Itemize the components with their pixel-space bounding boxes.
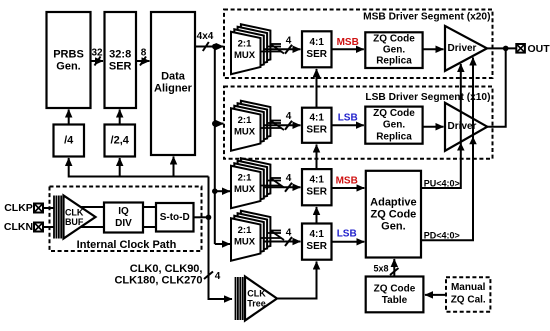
svg-text:LSB: LSB	[338, 113, 358, 124]
svg-text:MUX: MUX	[234, 237, 256, 248]
block 4:1 SER row2	[302, 108, 332, 143]
wire PD code	[421, 58, 473, 241]
wire data to LSB mux	[215, 123, 224, 125]
svg-text:/4: /4	[64, 135, 74, 147]
dashed box LSB Driver Segment	[224, 87, 493, 159]
svg-text:4: 4	[286, 228, 292, 239]
block 32:8 SER	[105, 12, 137, 108]
wire zq replica 2 to driver 2	[423, 126, 444, 128]
node CLKP pad	[4, 202, 43, 214]
svg-text:Replica: Replica	[376, 56, 412, 67]
svg-text:2:1: 2:1	[238, 173, 252, 184]
dashed box Manual ZQ Cal.	[446, 277, 490, 312]
wire Data Aligner output	[195, 46, 224, 48]
svg-text:SER: SER	[306, 125, 327, 136]
svg-text:2:1: 2:1	[238, 225, 252, 236]
wire ser2 to zq replica 2	[332, 124, 364, 126]
svg-text:SER: SER	[306, 241, 327, 252]
wire PU code	[421, 64, 461, 188]
svg-text:MSB: MSB	[336, 176, 358, 187]
svg-text:ZQ Code: ZQ Code	[373, 108, 415, 119]
wire data to mux row4	[215, 243, 230, 245]
wire IQ DIV to S-to-D pair	[143, 206, 156, 208]
svg-text:4:1: 4:1	[309, 175, 324, 186]
block S-to-D	[156, 203, 194, 232]
svg-text:Manual: Manual	[451, 282, 486, 293]
bus slash 5x8	[390, 268, 399, 275]
wire data to mux row3	[215, 190, 230, 192]
bus slash clock 4	[204, 272, 213, 280]
wire data trunk vertical	[214, 47, 216, 245]
block ZQ Code Gen. Replica row2	[365, 107, 422, 144]
svg-text:Gen.: Gen.	[383, 45, 405, 56]
svg-text:Adaptive: Adaptive	[370, 196, 416, 208]
svg-text:SER: SER	[306, 49, 327, 60]
driver MSB	[445, 26, 487, 71]
svg-text:32: 32	[91, 48, 103, 59]
svg-text:OUT: OUT	[528, 43, 550, 55]
svg-text:4:1: 4:1	[309, 113, 324, 124]
svg-text:4: 4	[286, 111, 292, 122]
svg-text:Gen.: Gen.	[56, 61, 80, 73]
svg-text:Data: Data	[161, 71, 186, 83]
svg-text:PU<4:0>: PU<4:0>	[424, 178, 460, 188]
wire ser4 to adaptive zq	[332, 241, 365, 243]
bus mux row2 to ser row2	[261, 111, 301, 130]
svg-text:8: 8	[141, 48, 147, 59]
svg-text:ZQ Cal.: ZQ Cal.	[451, 295, 486, 306]
wire /2,4 to SER	[119, 110, 121, 125]
wire riser to Data Aligner	[173, 157, 175, 177]
buffer CLK BUF	[54, 196, 96, 239]
svg-text:4:1: 4:1	[309, 229, 324, 240]
svg-text:4: 4	[286, 173, 292, 184]
svg-text:Gen.: Gen.	[381, 221, 405, 233]
wire CLK Tree output to 4:1 SER chain	[277, 262, 317, 299]
node data branch 1	[212, 44, 218, 50]
block 4:1 SER row3	[302, 169, 332, 205]
svg-text:ZQ Code: ZQ Code	[374, 284, 416, 295]
wire CLKN to CLK BUF	[43, 226, 54, 228]
svg-text:SER: SER	[306, 187, 327, 198]
wire ZQ table to adaptive 5x8	[393, 259, 395, 277]
svg-text:Driver: Driver	[448, 43, 477, 54]
wire SER to Data Aligner bus 8	[136, 48, 150, 66]
bus mux row1 to ser row1	[261, 35, 301, 54]
svg-text:Internal Clock Path: Internal Clock Path	[77, 239, 177, 251]
block IQ DIV	[104, 203, 143, 233]
arrowhead PU into LSB driver	[457, 143, 465, 151]
node data branch 2	[212, 121, 218, 127]
svg-text:Tree: Tree	[247, 299, 266, 309]
svg-text:S-to-D: S-to-D	[160, 212, 190, 223]
bus mux row4 to ser row4	[261, 228, 301, 247]
svg-text:MUX: MUX	[234, 184, 256, 195]
svg-text:4:1: 4:1	[309, 37, 324, 48]
node OUT pad	[516, 43, 550, 55]
block Data Aligner	[151, 12, 195, 155]
block PRBS Gen.	[47, 12, 91, 108]
svg-text:Table: Table	[382, 295, 408, 306]
svg-text:BUF: BUF	[65, 217, 84, 227]
node OUT junction	[503, 46, 509, 52]
svg-text:PD<4:0>: PD<4:0>	[424, 230, 460, 240]
svg-text:SER: SER	[109, 61, 132, 73]
svg-text:ZQ Code: ZQ Code	[373, 33, 415, 44]
svg-text:LSB Driver Segment (x10): LSB Driver Segment (x10)	[365, 92, 490, 103]
svg-text:CLK: CLK	[247, 289, 266, 299]
svg-text:PRBS: PRBS	[53, 49, 84, 61]
mux 2:1 MUX row1	[231, 24, 270, 74]
driver LSB	[445, 103, 487, 151]
svg-text:4: 4	[286, 35, 292, 46]
svg-text:2:1: 2:1	[238, 115, 252, 126]
wire ser1 to zq replica 1	[332, 48, 364, 50]
svg-text:DIV: DIV	[115, 218, 132, 229]
svg-text:4x4: 4x4	[197, 31, 214, 42]
dashed box MSB Driver Segment	[224, 10, 493, 79]
svg-text:Gen.: Gen.	[383, 120, 405, 131]
block divider /2,4	[105, 125, 136, 157]
svg-text:CLKN: CLKN	[4, 221, 33, 233]
mux 2:1 MUX row4	[231, 211, 270, 261]
wire clock chain ser2 to ser1	[316, 69, 318, 108]
wire S-to-D output	[194, 216, 209, 218]
svg-text:4: 4	[215, 271, 221, 282]
svg-text:5x8: 5x8	[373, 264, 388, 274]
wire CLKP to CLK BUF	[43, 207, 54, 209]
svg-text:CLK0, CLK90,: CLK0, CLK90,	[130, 263, 203, 275]
wire /4 to PRBS	[68, 110, 70, 125]
block 4:1 SER row1	[302, 31, 332, 67]
svg-text:IQ: IQ	[118, 206, 129, 217]
wire clock trunk vertical	[209, 177, 233, 300]
svg-text:2:1: 2:1	[238, 39, 252, 50]
svg-text:Replica: Replica	[376, 131, 412, 142]
mux 2:1 MUX row2	[231, 101, 270, 151]
svg-text:MSB: MSB	[337, 37, 359, 48]
node data branch 3	[212, 188, 218, 194]
svg-text:32:8: 32:8	[109, 49, 131, 61]
block 4:1 SER row4	[302, 224, 332, 260]
wire clock distribution trunk	[69, 176, 209, 178]
svg-text:CLK: CLK	[65, 208, 84, 218]
wire zq replica 1 to driver 1	[423, 48, 444, 50]
block ZQ Code Table	[366, 277, 424, 313]
svg-text:MSB Driver Segment (x20): MSB Driver Segment (x20)	[363, 11, 490, 22]
node clock junction	[206, 215, 212, 221]
svg-text:CLK180, CLK270: CLK180, CLK270	[114, 275, 202, 287]
wire PRBS to SER bus 32	[91, 48, 104, 66]
wire CLK BUF to IQ DIV pair	[81, 206, 104, 208]
wire ser3 to adaptive zq	[332, 187, 365, 189]
node CLKN pad	[4, 221, 43, 233]
wire riser to /2,4	[119, 158, 121, 177]
svg-text:ZQ Code: ZQ Code	[370, 208, 416, 220]
bus mux row3 to ser row3	[261, 173, 301, 192]
dashed box Internal Clock Path	[50, 187, 202, 252]
mux 2:1 MUX row3	[231, 158, 270, 208]
wire LSB driver to OUT junction	[487, 48, 506, 126]
wire driver MSB to OUT	[487, 47, 516, 49]
svg-text:/2,4: /2,4	[111, 135, 130, 147]
wire clock chain ser4 to ser3	[316, 207, 318, 224]
block ZQ Code Gen. Replica row1	[365, 32, 422, 68]
svg-text:Aligner: Aligner	[154, 83, 193, 95]
buffer CLK Tree	[236, 277, 278, 321]
wire clock chain ser3 to ser2	[316, 145, 318, 170]
block Adaptive ZQ Code Gen.	[366, 171, 421, 258]
svg-text:CLKP: CLKP	[4, 202, 33, 214]
arrowhead PD into LSB driver	[469, 137, 477, 145]
svg-text:MUX: MUX	[234, 127, 256, 138]
wire manual to table	[425, 294, 446, 296]
bus slash 4x4	[203, 42, 209, 51]
svg-text:MUX: MUX	[234, 50, 256, 61]
wire riser to /4	[68, 158, 70, 178]
svg-text:LSB: LSB	[337, 229, 357, 240]
block divider /4	[54, 125, 85, 157]
